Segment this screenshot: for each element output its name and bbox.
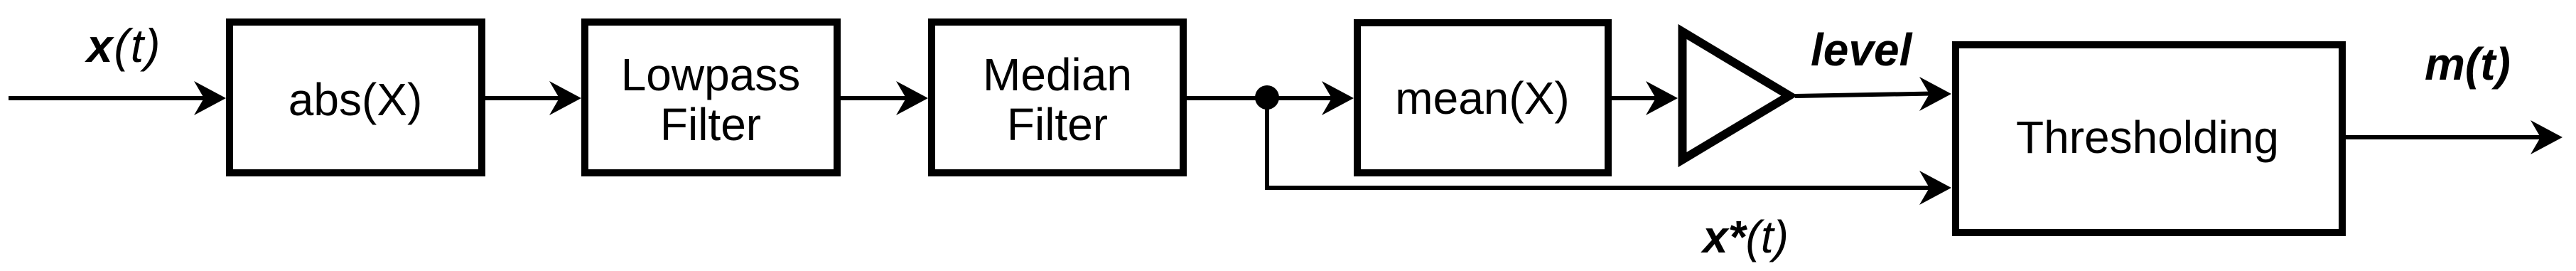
arrowhead into median: [896, 81, 928, 115]
arrowhead into lowpass: [549, 81, 581, 115]
wire lowpass to median: [841, 96, 908, 100]
arrowhead level into thresholding: [1919, 77, 1951, 111]
arrowhead into mean: [1322, 81, 1354, 115]
svg-text:m(t): m(t): [2425, 38, 2511, 90]
wire output m(t): [2346, 135, 2543, 139]
box mean(X): [1357, 23, 1608, 173]
arrowhead output: [2531, 120, 2562, 154]
arrowhead into abs box: [194, 81, 226, 115]
wire bypass x*(t): down from dot then right: [1267, 98, 1932, 188]
svg-text:mean(X): mean(X): [1395, 73, 1569, 124]
wire level into thresholding: [1795, 94, 1932, 97]
wire median to mean: [1187, 96, 1334, 100]
svg-text:Thresholding: Thresholding: [2016, 112, 2279, 163]
svg-text:Filter: Filter: [660, 99, 761, 150]
wire abs to lowpass: [485, 96, 561, 100]
box Thresholding: [1956, 45, 2342, 233]
box Lowpass Filter: [585, 22, 837, 173]
svg-text:x(t): x(t): [85, 19, 161, 72]
svg-text:level: level: [1811, 24, 1913, 75]
junction dot: [1255, 85, 1279, 110]
svg-text:Filter: Filter: [1007, 99, 1108, 150]
box abs(X): [230, 22, 482, 173]
svg-text:abs(X): abs(X): [289, 74, 423, 125]
box Median Filter: [932, 22, 1183, 173]
svg-text:Median: Median: [983, 49, 1132, 100]
arrowhead bypass into thresholding: [1919, 171, 1951, 205]
wire input x(t): [9, 96, 206, 100]
arrowhead into triangle: [1646, 81, 1678, 115]
wire mean to gain triangle: [1612, 96, 1658, 100]
gain triangle: [1683, 32, 1790, 160]
svg-text:x*(t): x*(t): [1701, 211, 1789, 262]
svg-text:Lowpass: Lowpass: [621, 49, 801, 100]
